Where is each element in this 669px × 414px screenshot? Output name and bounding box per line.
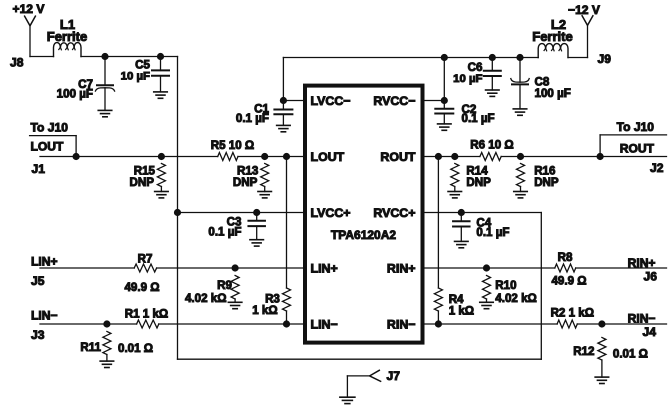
svg-text:10 µF: 10 µF [121,70,150,82]
svg-text:RVCC−: RVCC− [373,94,415,108]
L1 label [60,17,75,32]
R3 value [252,304,277,317]
capacitor C5 [152,57,169,92]
wire R4 bottom lead [437,311,439,324]
C3 label [227,216,242,229]
svg-text:ROUT: ROUT [620,141,655,155]
svg-text:J6: J6 [644,270,658,284]
R15 value DNP [130,176,155,189]
R3 label [265,293,280,306]
resistor R8 [555,264,576,272]
U1 name label [331,228,396,242]
C8 value [535,87,571,100]
C1 value [236,112,269,125]
ground below C3 [250,240,264,246]
R10 label [495,279,516,292]
wire -12V rail [283,57,538,59]
resistor R14 [451,164,459,192]
node RIN- / R12 junction [599,321,605,327]
R13 value DNP [233,176,258,189]
wire right VCC+ loop vertical [540,213,542,360]
node RVCC- / C2 junction [441,97,447,103]
svg-text:LOUT: LOUT [311,150,345,164]
capacitor C4 [453,213,470,242]
R9 label [217,279,232,292]
connector J1 To J10 label [31,121,69,135]
wire LOUT line right segment [238,156,305,158]
node LIN- / R11 junction [104,321,110,327]
svg-text:49.9 Ω: 49.9 Ω [124,281,159,294]
svg-text:DNP: DNP [233,176,258,189]
pin label RVCC+ [373,206,415,220]
svg-text:0.1 µF: 0.1 µF [208,225,241,238]
resistor R6 [480,153,501,161]
R11 value [118,342,153,355]
L2 label [551,17,566,32]
resistor R11 [103,332,111,362]
resistor R15 [157,164,165,192]
ground below R10 [480,302,494,308]
svg-text:TPA6120A2: TPA6120A2 [331,228,396,242]
svg-text:RIN−: RIN− [387,318,416,332]
L2 value Ferrite [532,29,572,44]
svg-text:R2 1 kΩ: R2 1 kΩ [551,307,594,320]
svg-text:RIN+: RIN+ [387,262,416,276]
ground below R9 [228,302,242,308]
R13 label [237,164,259,177]
resistor R5 [218,153,238,161]
node ROUT / R4 feedback junction [435,153,441,159]
L1 value Ferrite [47,29,87,44]
node LOUT / R3 feedback junction [283,153,289,159]
svg-text:J5: J5 [31,274,45,288]
R10 value [495,292,537,305]
svg-text:LVCC+: LVCC+ [311,206,351,220]
R11 label [80,341,101,354]
svg-text:J7: J7 [387,369,401,383]
C4 value [476,226,509,239]
wire RIN+ left segment [423,267,555,269]
C4 label [476,216,491,229]
connector J2 ROUT label [620,141,655,155]
svg-text:LIN+: LIN+ [311,262,338,276]
connector J1 LOUT label [31,139,65,153]
svg-text:J8: J8 [10,56,24,70]
wire RVCC- pin stub [423,100,445,102]
svg-text:R10: R10 [495,279,516,292]
node J1 branch junction [73,153,79,159]
wire RVCC+ pin to loop [423,212,542,214]
capacitor C7 [95,57,114,111]
R6 label [470,138,513,151]
capacitor C3 [248,213,265,240]
pin label ROUT [380,150,416,164]
svg-text:R5 10 Ω: R5 10 Ω [211,139,254,152]
pin label LVCC- [311,94,351,108]
resistor R3 [283,288,291,311]
node LOUT / R15 junction [158,153,164,159]
-12V supply symbol [568,3,600,25]
svg-text:1 kΩ: 1 kΩ [449,305,474,318]
wire J1 To-J10 branch [30,136,77,157]
ground below C2 [438,124,452,130]
R15 label [134,164,156,177]
svg-text:R6 10 Ω: R6 10 Ω [470,138,513,151]
R7 label [138,253,153,266]
svg-text:0.1 µF: 0.1 µF [462,112,495,125]
wire left +12V loop vertical [177,57,179,360]
wire bottom VCC+ rail [178,358,542,360]
wire LVCC- riser [282,58,284,101]
svg-text:Ferrite: Ferrite [532,29,572,44]
C2 label [462,103,477,116]
pin label RVCC- [373,94,415,108]
wire R4 top lead [437,157,439,289]
R16 value DNP [534,176,559,189]
R7 value [124,281,159,294]
svg-text:LIN+: LIN+ [31,255,58,269]
R12 value [613,348,648,361]
wire +12V to J8 corner [30,26,54,57]
ground below R15 [155,192,169,198]
node LVCC- / C1 junction [280,97,286,103]
connector J4 RIN- label [628,311,656,325]
inductor L1 [54,43,82,57]
pin label RIN- [387,318,416,332]
R2 label [551,307,594,320]
C2 value [462,112,495,125]
wire L1 to left loop corner [81,56,178,58]
wire LIN+ left segment [40,267,134,269]
resistor R10 [483,276,491,303]
ground below R14 [448,192,462,198]
wire LIN+ right segment [157,267,305,269]
svg-text:100 µF: 100 µF [535,87,571,100]
svg-text:J9: J9 [598,52,612,66]
connector J4 label [643,325,657,339]
pin label RIN+ [387,262,416,276]
svg-text:0.1 µF: 0.1 µF [476,226,509,239]
C5 value [121,70,150,82]
capacitor C2 [435,101,453,124]
R9 value [185,292,227,305]
R12 label [573,345,594,358]
resistor R13 [261,164,269,192]
ground below J7 [340,397,355,403]
wire RIN- right segment [577,323,666,325]
resistor R9 [231,276,239,303]
node LVCC+ / loop junction [174,209,180,215]
node RIN- / R4 junction [435,321,441,327]
+12V supply symbol [13,2,45,26]
wire RIN- left segment [423,323,558,325]
R4 value [449,305,474,318]
ground below R13 [258,192,272,198]
ground below C8 [513,109,527,115]
ground below R12 [595,377,609,383]
svg-text:Ferrite: Ferrite [47,29,87,44]
R8 value [551,275,586,288]
wire LVCC- pin stub [283,100,305,102]
inductor L2 [538,44,568,58]
svg-text:RVCC+: RVCC+ [373,206,415,220]
wire RIN+ right segment [576,267,667,269]
R14 value DNP [466,176,491,189]
C1 label [254,102,269,115]
node RIN+ / R10 junction [483,265,489,271]
svg-text:To J10: To J10 [617,120,655,134]
resistor R1 [137,320,159,328]
connector J2 label [650,161,664,175]
svg-text:LIN−: LIN− [31,309,58,323]
connector J7 [347,370,380,397]
J7 label [387,369,401,383]
pin label LIN- [311,318,338,332]
C6 label [468,61,483,74]
wire C2 riser [443,58,445,101]
connector J5 LIN+ label [31,255,58,269]
svg-text:J1: J1 [32,162,46,176]
connector J1 label [32,162,46,176]
pin label LIN+ [311,262,338,276]
resistor R12 [598,338,606,378]
ground below C4 [455,241,469,247]
svg-text:DNP: DNP [130,176,155,189]
node LOUT / R13 junction [262,153,268,159]
node LVCC+ / C3 junction [254,209,260,215]
svg-text:49.9 Ω: 49.9 Ω [551,275,586,288]
R8 label [558,251,573,264]
svg-text:4.02 kΩ: 4.02 kΩ [185,292,227,305]
wire -12V to J9 corner [568,25,588,57]
capacitor C1 [274,101,292,126]
C3 value [208,225,241,238]
svg-text:+12 V: +12 V [13,2,45,16]
svg-text:10 µF: 10 µF [453,73,482,85]
ground below R16 [514,192,528,198]
C6 value [453,73,482,85]
connector J8 label [10,56,24,70]
connector J6 label [644,270,658,284]
ground below C5 [154,92,168,98]
node +12V rail / C7 junction [102,53,108,59]
node +12V rail / C5 junction [157,53,163,59]
wire LIN- left segment [40,323,137,325]
svg-text:LIN−: LIN− [311,318,338,332]
svg-text:R1 1 kΩ: R1 1 kΩ [125,308,168,321]
node ROUT / R16 junction [517,153,523,159]
svg-text:ROUT: ROUT [380,150,416,164]
node LIN- / R3 junction [283,321,289,327]
connector J3 LIN- label [31,309,58,323]
connector J6 RIN+ label [628,256,656,270]
svg-text:LOUT: LOUT [31,139,65,153]
svg-text:4.02 kΩ: 4.02 kΩ [495,292,537,305]
R16 label [534,164,556,177]
wire J2 To-J10 branch [600,135,666,157]
pin label LOUT [311,150,345,164]
svg-text:R8: R8 [558,251,573,264]
node LIN+ / R9 junction [232,265,238,271]
svg-text:To J10: To J10 [31,121,69,135]
op-amp U1 TPA6120A2 body [305,86,423,343]
wire LOUT line left segment [40,156,218,158]
capacitor C8 [511,58,529,109]
R1 label [125,308,168,321]
svg-text:RIN−: RIN− [628,311,656,325]
capacitor C6 [484,58,501,91]
C5 label [135,58,150,71]
svg-text:LVCC−: LVCC− [311,94,351,108]
node -12V rail / C2 riser junction [441,54,447,60]
svg-text:100 µF: 100 µF [57,87,93,100]
svg-text:RIN+: RIN+ [628,256,656,270]
resistor R2 [557,320,577,328]
svg-text:1 kΩ: 1 kΩ [252,304,277,317]
R5 label [211,139,254,152]
resistor R7 [134,264,156,272]
C8 label [535,75,550,88]
svg-text:R11: R11 [80,341,101,354]
svg-text:−12 V: −12 V [568,3,600,17]
wire LVCC+ pin to loop [178,212,306,214]
node RVCC+ / C4 junction [458,209,464,215]
svg-text:R9: R9 [217,279,232,292]
svg-text:0.01 Ω: 0.01 Ω [613,348,648,361]
R14 label [466,164,488,177]
wire R3 top lead [286,157,288,289]
ground below C7 [98,110,112,116]
wire ROUT line left segment [423,156,480,158]
resistor R16 [517,164,525,192]
ground below C6 [486,90,500,96]
svg-text:DNP: DNP [466,176,491,189]
svg-text:DNP: DNP [534,176,559,189]
svg-text:J4: J4 [643,325,657,339]
svg-text:R7: R7 [138,253,153,266]
svg-text:J2: J2 [650,161,664,175]
C7 value [57,87,93,100]
wire ROUT line right segment [501,156,666,158]
svg-text:0.1 µF: 0.1 µF [236,112,269,125]
ground below C1 [277,125,291,131]
wire LIN- right segment [159,323,305,325]
svg-text:R12: R12 [573,345,594,358]
svg-text:0.01 Ω: 0.01 Ω [118,342,153,355]
node -12V rail / C6 junction [489,54,495,60]
svg-text:J3: J3 [31,328,45,342]
connector J2 To J10 label [617,120,655,134]
connector J5 label [31,274,45,288]
wire R3 bottom lead [286,311,288,324]
resistor R4 [434,288,442,311]
node -12V rail / C8 junction [517,54,523,60]
R4 label [449,293,464,306]
connector J9 label [598,52,612,66]
pin label LVCC+ [311,206,351,220]
connector J3 label [31,328,45,342]
node ROUT / R14 junction [452,153,458,159]
node J2 branch junction [597,153,603,159]
ground below R11 [100,361,114,367]
C7 label [78,78,93,91]
